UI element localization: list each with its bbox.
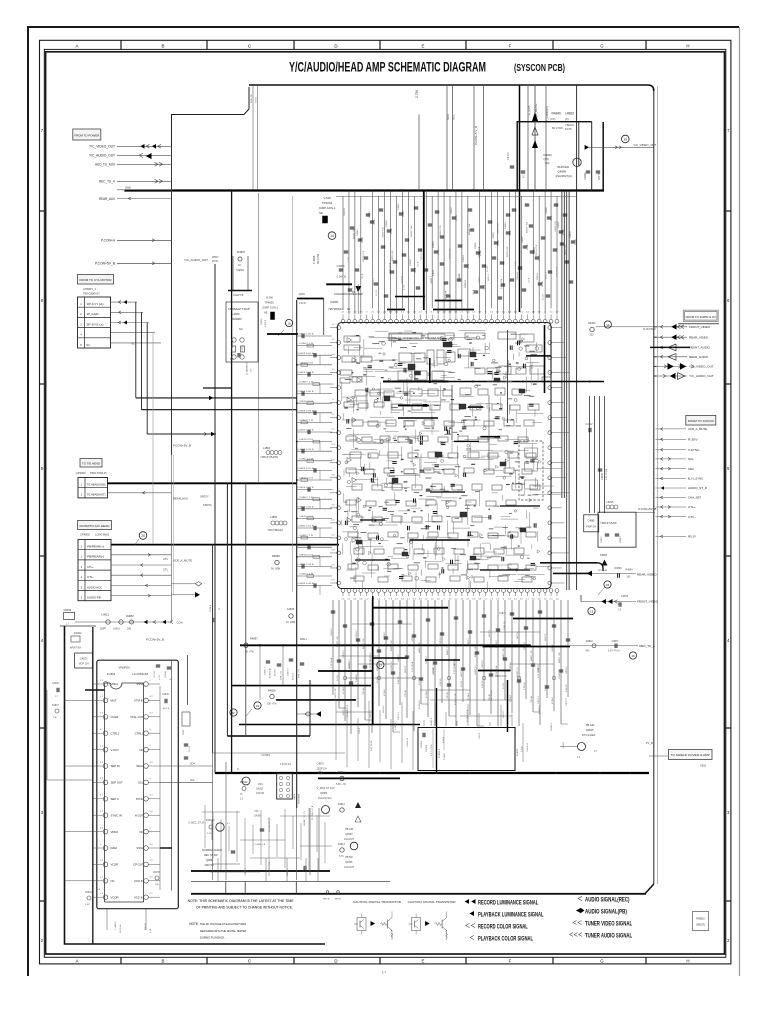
svg-text:2.2K W1: 2.2K W1 [398,675,400,684]
svg-text:DAM: DAM [111,846,118,850]
svg-text:L4821: L4821 [102,613,110,617]
svg-text:JUMP-GON-1: JUMP-GON-1 [319,206,336,210]
svg-text:C4816 0.06 B: C4816 0.06 B [298,391,315,393]
svg-text:47W +7%: 47W +7% [299,669,301,678]
svg-text:B: B [162,959,165,964]
svg-text:CTL: CTL [163,568,169,572]
svg-text:C4863: C4863 [620,536,622,543]
svg-text:C4833 0.01 B: C4833 0.01 B [299,439,314,441]
svg-text:25SP CH: 25SP CH [317,768,327,771]
grid tick top [120,40,122,49]
svg-text:2SC2378: 2SC2378 [344,866,355,869]
svg-text:GB02.3 KA: GB02.3 KA [495,675,507,678]
svg-text:C4807 1 B: C4807 1 B [299,535,314,537]
svg-text:R4848 4: R4848 4 [465,279,467,288]
svg-text:H.S.N: H.S.N [256,97,258,103]
svg-text:VTM IN: VTM IN [134,699,143,703]
svg-text:NOTE:: NOTE: [189,922,199,926]
IC interior op-amp triangles [347,338,352,343]
svg-text:100 B: 100 B [529,277,531,283]
thick bus y871 [191,870,330,872]
svg-text:10K: 10K [53,717,57,719]
svg-text:3P_GAIN: 3P_GAIN [87,312,99,316]
svg-text:14: 14 [330,234,334,238]
C4102 cap [588,428,590,432]
svg-text:R4805 1 5K: R4805 1 5K [447,644,449,655]
svg-text:6.3V 22 KA: 6.3V 22 KA [330,657,333,668]
svg-text:R4012: R4012 [338,803,346,806]
svg-text:6.8V 25 KA: 6.8V 25 KA [605,468,608,480]
svg-text:100 B: 100 B [484,284,486,290]
svg-text:Q4886: Q4886 [558,170,567,174]
D4880 arrow [602,560,608,566]
svg-text:0.01 B: 0.01 B [431,278,433,284]
transistor Q4891 [216,823,224,831]
long vertical x259 faint [258,193,260,483]
svg-text:R-4853 8: R-4853 8 [439,748,441,758]
IC interior thick bus segments [383,381,448,383]
svg-text:GGW5 1 2: GGW5 1 2 [517,667,519,677]
svg-text:2SA/04(X)KA: 2SA/04(X)KA [318,797,332,800]
svg-text:C4012 4.7 B: C4012 4.7 B [363,250,365,262]
right list1 row FRONT_VIDEO [656,326,688,328]
svg-text:6.3V 22 KA: 6.3V 22 KA [369,659,372,670]
svg-text:3P-5YS (s): 3P-5YS (s) [87,322,104,326]
svg-text:Y80UH BA5!: Y80UH BA5! [600,522,617,525]
svg-text:C4807 1 B: C4807 1 B [299,458,314,460]
schematic outline bottom chamfer [645,884,654,894]
svg-text:C4X8P1: C4X8P1 [261,754,271,757]
svg-text:Y0K 4B: Y0K 4B [405,690,407,697]
svg-text:C4807 1 B: C4807 1 B [299,497,314,499]
svg-text:(XX): (XX) [550,117,556,121]
IC4802 pin CTRL1 [144,731,149,736]
outline chamfer step [244,87,249,115]
svg-text:Q4815: Q4815 [586,728,594,732]
svg-text:FRONT_VIDEO: FRONT_VIDEO [637,600,659,604]
diode open [532,127,538,135]
svg-text:SRDTA: SRDTA [203,503,212,507]
below-IC component columns [332,600,334,695]
svg-text:V-SYNC: V-SYNC [643,327,656,331]
svg-text:R4846: R4846 [552,112,562,116]
svg-text:L4873 2: L4873 2 [489,629,491,637]
svg-text:C4822 0.03 B: C4822 0.03 B [298,449,315,451]
svg-text:0.01 B: 0.01 B [419,679,421,685]
svg-text:19: 19 [256,704,260,708]
schematic block outline top-left step [172,115,245,456]
svg-text:C4076 4: C4076 4 [440,636,442,644]
svg-text:2SD734: 2SD734 [256,793,265,795]
svg-text:Y0K 4B: Y0K 4B [447,692,449,699]
svg-text:R4805 1 5K: R4805 1 5K [391,640,393,651]
svg-text:100 B: 100 B [374,219,376,225]
svg-text:47 KA: 47 KA [437,249,440,255]
svg-text:4.7 B: 4.7 B [404,285,406,290]
svg-text:L4873 2: L4873 2 [503,710,505,718]
svg-text:Y80UH BA5S: Y80UH BA5S [260,456,278,459]
circled 14b [604,321,611,328]
svg-text:PB GW: PB GW [586,723,595,727]
svg-text:D4306: D4306 [254,816,261,818]
long vertical x245 [245,483,247,736]
svg-text:C4880: C4880 [587,520,595,523]
circled 14 [328,232,336,240]
op IC4001 Y/C/AUDIO/HEAD AMP main body [338,323,552,589]
svg-text:V_MC2_ST_R: V_MC2_ST_R [188,822,204,825]
svg-text:C4060: C4060 [505,222,507,229]
grid tick right [726,383,731,385]
svg-text:CTL: CTL [163,557,169,561]
svg-text:NE: NE [264,312,268,315]
thick bus y778 [318,777,400,779]
grid tick top [645,40,647,49]
svg-text:HAY18(X)CR: HAY18(X)CR [329,308,344,311]
caution transistor symbol pair 1 [357,918,366,931]
FROM TO CYL MOTOR label box [78,275,114,285]
svg-text:SDA: SDA [190,763,195,766]
IC4802 pin VC5R [103,862,108,867]
IC4802 pin SDA4 [144,764,149,769]
svg-text:GGW5 1 2: GGW5 1 2 [433,663,435,673]
svg-text:C4058: C4058 [493,232,495,239]
IC4802 pin VSS2 [144,846,149,851]
svg-text:C4834 0.06 B: C4834 0.06 B [298,564,315,566]
grid tick left [40,555,45,557]
svg-text:6.3V 22 KA: 6.3V 22 KA [453,663,456,674]
svg-text:GGW5 2: GGW5 2 [431,717,433,726]
svg-text:Q4883: Q4883 [320,792,328,795]
svg-text:L4011 3: L4011 3 [546,271,548,279]
svg-text:1 500B: 1 500B [444,753,446,760]
svg-text:15: 15 [606,583,610,587]
svg-text:P05810: P05810 [696,918,705,921]
border frame middle [44,49,726,957]
svg-text:D4596: D4596 [615,567,623,570]
IC interior cap pairs [398,363,402,365]
svg-text:SRDTY: SRDTY [200,495,209,499]
svg-text:NE: NE [347,309,351,311]
svg-text:WV.75: WV.75 [598,172,601,180]
svg-text:FROM TO 2/4PIN & I/O: FROM TO 2/4PIN & I/O [686,315,716,319]
svg-text:0.01 B: 0.01 B [543,294,545,300]
left strip component rows [297,335,332,337]
svg-text:47 KA: 47 KA [526,244,529,250]
thin line y881 [191,881,390,883]
trap box [226,302,258,362]
svg-text:C4064: C4064 [534,247,536,254]
svg-text:R4065: R4065 [153,872,160,874]
svg-text:VCR_A_MUTE: VCR_A_MUTE [688,427,707,431]
svg-text:13: 13 [590,609,594,613]
right list1 row REAR_AUDIO [656,356,688,358]
svg-text:CAUTION: DIGITAL TRANSISTOR: CAUTION: DIGITAL TRANSISTOR [408,900,456,904]
NC bars above IC [387,309,405,311]
svg-text:NJ4WC_ST_7%: NJ4WC_ST_7% [304,811,306,826]
IC4802 pin SYNC [144,797,149,802]
svg-text:C48 37 1: C48 37 1 [538,695,540,704]
diamond + arrow mid [305,712,311,716]
FROM TO label box 2 [686,415,716,425]
REAR_VIDEO output cluster [540,562,597,564]
svg-text:R450A 0: R450A 0 [206,819,216,822]
svg-text:SCL: SCL [190,779,195,782]
svg-text:L4011 3: L4011 3 [488,273,490,281]
svg-text:C4807 1 B: C4807 1 B [299,343,314,345]
svg-text:NOVI4808: NOVI4808 [299,793,301,804]
right list2 row CTL- [656,516,687,518]
svg-text:CTL-: CTL- [87,575,94,579]
svg-text:C4 931: C4 931 [154,670,156,678]
svg-text:R-4873 1 5K: R-4873 1 5K [335,688,337,700]
grid tick top [465,40,467,49]
grid tick top [379,40,381,49]
bus y700 [276,699,356,701]
page edge trim line left [27,26,29,976]
below-IC thin horizontals [352,623,412,625]
svg-text:L4806: L4806 [294,793,296,800]
svg-text:DURING PLAYBACK.: DURING PLAYBACK. [200,936,225,940]
junction dots y773 bus [231,772,233,774]
svg-text:AUDIO PB: AUDIO PB [87,596,101,600]
svg-text:6.8V 20 KA: 6.8V 20 KA [370,740,373,751]
svg-text:AUDIO HOC: AUDIO HOC [87,585,102,589]
svg-text:0.022 B: 0.022 B [242,344,244,352]
svg-text:100 B: 100 B [473,289,475,295]
svg-text:6.3V 47 KA: 6.3V 47 KA [268,861,271,872]
output arrow to Y/C_VIDEO_OUT [585,145,590,150]
connector A/C head [78,540,111,601]
long vertical x212 [212,544,214,753]
svg-text:MUT: MUT [111,699,117,703]
svg-text:Y/C_AUDIO_OUT: Y/C_AUDIO_OUT [689,374,714,378]
right list2 row R.30V [656,438,687,440]
svg-text:C4807 2: C4807 2 [288,668,290,676]
right list1 row FRONT_AUDIO [656,346,688,348]
bus segment y290 [228,290,252,292]
bus y645 [240,644,530,646]
svg-text:L4864: L4864 [263,446,271,450]
junction dots y645 bus [259,644,261,646]
svg-text:G: G [600,959,604,964]
svg-text:VCO IN: VCO IN [134,895,144,899]
svg-text:DTC/144EA: DTC/144EA [582,734,596,737]
bus y685 [232,685,371,687]
IC4802 pin CP.OUT [144,862,149,867]
svg-text:Y/C/AUDIO/CCD/HEAD AMP: Y/C/AUDIO/CCD/HEAD AMP [334,293,363,296]
svg-text:NE: NE [319,211,323,215]
right list1 row Y/C_AUDIO_OUT [656,375,688,377]
TP4002 black pad [323,216,328,223]
IC4802 pin XTAL OUT [144,715,149,720]
svg-text:2SC2378: 2SC2378 [344,838,355,841]
heavy bus y381 right half [384,381,604,383]
svg-text:(X): (X) [565,117,569,121]
svg-text:R4 91O: R4 91O [293,673,295,680]
circled 19 [254,702,261,709]
svg-text:C4802: C4802 [236,268,244,272]
svg-text:WW7: WW7 [212,255,219,259]
svg-text:2.2KW1: 2.2KW1 [395,722,397,730]
thick verticals below IC [507,680,509,732]
cyl motor wires [111,301,138,303]
svg-text:SCL: SCL [688,457,694,461]
svg-text:2SA/0027(A): 2SA/0027(A) [556,174,573,178]
svg-text:100 B: 100 B [551,215,553,221]
svg-text:C4073: C4073 [479,732,481,739]
verticals x589-605 [589,396,591,513]
svg-text:L4873 2: L4873 2 [405,665,407,673]
svg-text:C-4806 6: C-4806 6 [115,921,117,930]
bus y724 [239,724,420,726]
svg-text:R4867: R4867 [126,614,134,618]
IC interior tall box right (dashed) [519,441,543,500]
sub box inner verticals [432,730,434,769]
caution transistor symbol pair 2 [412,918,421,931]
svg-text:GGW5 1 2: GGW5 1 2 [349,659,351,669]
svg-text:R4805 1 5K: R4805 1 5K [475,646,477,657]
svg-text:0.01 B: 0.01 B [487,266,489,272]
svg-text:D4306: D4306 [64,608,72,612]
svg-text:VCO IN: VCO IN [134,879,144,883]
svg-text:R4848 7 KA: R4848 7 KA [525,222,528,233]
svg-text:2.2K W1: 2.2K W1 [482,679,484,688]
svg-text:L4873 2: L4873 2 [383,705,385,713]
FROM/TO A/C HEAD label box [78,521,112,530]
svg-text:16V 16 A: 16V 16 A [119,924,122,933]
svg-text:RECORD LUMINANCE SIGNAL: RECORD LUMINANCE SIGNAL [478,899,538,906]
svg-text:Y80YBA62: Y80YBA62 [267,529,284,532]
svg-text:165: 165 [590,334,595,337]
svg-text:47W +7%: 47W +7% [281,671,283,680]
outline left lower faint [171,455,173,622]
grid tick left [40,727,45,729]
svg-text:C4046 B: C4046 B [517,272,519,280]
outline top heavy [249,85,654,91]
svg-text:CTL+: CTL+ [688,505,696,509]
grid tick top [552,40,554,49]
IC4001 top pin row [341,319,345,323]
svg-text:GGW5 2: GGW5 2 [551,722,553,731]
grid tick bottom [293,957,295,964]
svg-text:6.3V 47 KA: 6.3V 47 KA [608,650,620,653]
SRY10 SRY11 labels [326,891,329,894]
svg-text:IC4802: IC4802 [107,672,116,676]
svg-text:C4820 0.01 B: C4820 0.01 B [298,430,315,432]
svg-text:C4024A: C4024A [231,340,234,348]
svg-text:SDA: SDA [446,114,450,120]
svg-text:SEP OUT: SEP OUT [111,781,124,785]
svg-text:CP400S: CP400S [80,533,90,537]
heavy bottom bus y773 [215,772,649,774]
cyl motor vertical bundle [135,302,137,398]
schematic outline grey doubling right [657,86,659,884]
svg-text:C4026: C4026 [261,318,263,325]
IC interior dark filled rects [443,342,452,347]
svg-text:CHA_SET: CHA_SET [688,496,702,500]
svg-text:VV_R: VV_R [646,741,653,745]
long vertical x576 [576,85,578,591]
svg-text:C4807 1 B: C4807 1 B [299,420,314,422]
svg-text:C4833 0.01 B: C4833 0.01 B [299,554,314,556]
svg-text:CTL+: CTL+ [87,565,94,569]
IC4802 pin SEP C [103,797,108,802]
svg-text:REAR_VIDEO: REAR_VIDEO [689,335,709,339]
circled 15 [604,581,611,588]
IC interior micro arrows [410,539,413,542]
svg-text:1K: 1K [238,263,241,267]
svg-text:R4838: R4838 [272,554,280,558]
svg-text:GGW5 1 2: GGW5 1 2 [391,661,393,671]
svg-text:5K 1/6W: 5K 1/6W [271,568,281,571]
svg-text:C4870: C4870 [621,595,629,598]
svg-text:L4011 3: L4011 3 [373,277,375,285]
IC4802 pin SYNC IN [103,813,108,818]
svg-text:C: C [248,44,251,49]
svg-text:R4867: R4867 [52,705,59,707]
svg-text:C4833 0.01 B: C4833 0.01 B [299,516,314,518]
grid tick bottom [206,957,208,964]
IC4001 right pin column [548,326,552,330]
svg-text:C4066: C4066 [546,207,548,214]
svg-text:C4832 0.04 B: C4832 0.04 B [298,545,315,547]
svg-text:T80-C800I-0Y: T80-C800I-0Y [83,292,100,296]
open diamond arrow row 580 [195,582,201,586]
svg-text:47 KA: 47 KA [390,228,393,234]
TO SHIELD COVER box [669,750,713,760]
svg-text:R4833 2.2K: R4833 2.2K [507,246,509,257]
svg-text:R4805 1 5K: R4805 1 5K [363,638,365,649]
svg-text:D: D [334,959,337,964]
thick bars below IC [373,607,448,609]
XTAL [182,712,190,726]
svg-text:L4011: L4011 [433,269,435,276]
svg-text:L4020: L4020 [232,312,240,316]
thick segment y334 left of IC [267,333,298,335]
T/E head bus y483 [107,482,297,484]
svg-text:R-485 1 10 K: R-485 1 10 K [347,704,349,717]
svg-text:0.01 B: 0.01 B [539,255,541,261]
svg-text:47 KA 3: 47 KA 3 [383,688,386,696]
svg-text:C4872: C4872 [601,536,603,543]
svg-text:C4074: C4074 [537,273,539,280]
svg-text:C48 37 1: C48 37 1 [566,697,568,706]
svg-text:2.2K W1: 2.2K W1 [566,683,568,692]
svg-text:L4210: L4210 [113,628,121,631]
svg-text:C4806: C4806 [162,694,169,696]
svg-text:C4873 6: C4873 6 [510,662,512,670]
right list2 row V.SYNC [656,449,687,451]
svg-text:C4050: C4050 [433,241,435,248]
svg-text:C4873 6: C4873 6 [482,660,484,668]
bus y736 [227,735,310,737]
svg-text:82 V-5W: 82 V-5W [552,126,563,130]
IC4802 pin VTM IN [144,698,149,703]
svg-text:C4871: C4871 [499,613,506,615]
IC4802 SDA/SCL wires to right [160,765,213,767]
junction dots on bus y381 [397,381,399,383]
svg-text:47 KA 3: 47 KA 3 [342,686,345,694]
svg-text:20: 20 [141,534,145,538]
svg-text:C4073: C4073 [359,727,361,734]
Q4883 transistor circle [322,806,330,814]
IC4802 pin VDD1 [103,682,108,687]
svg-text:AUDIO SIGNAL(PB): AUDIO SIGNAL(PB) [585,908,627,915]
svg-text:C4080 4: C4080 4 [468,638,470,646]
svg-text:RV_R: RV_R [688,535,696,539]
svg-text:C4103: C4103 [80,657,88,661]
IC4802 left wires to outline [65,699,93,701]
